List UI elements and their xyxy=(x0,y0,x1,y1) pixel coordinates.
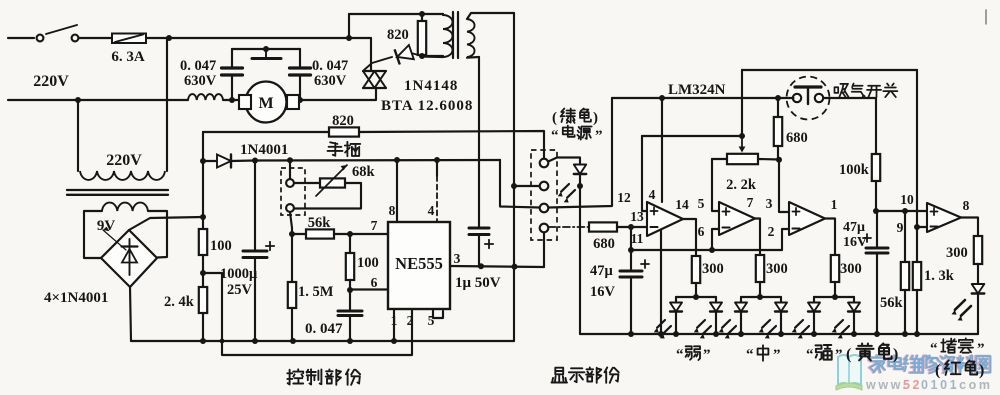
node pin4 rail xyxy=(434,157,440,163)
svg-text:4: 4 xyxy=(649,187,656,202)
svg-text:4: 4 xyxy=(428,203,435,218)
svg-text:47μ: 47μ xyxy=(843,220,865,235)
wire pin11 ground xyxy=(660,230,662,334)
wire Vcc to pin3 xyxy=(500,160,540,208)
wire switch lower down xyxy=(290,212,292,234)
LED blocked red xyxy=(972,284,985,294)
label suction switch xyxy=(835,84,849,97)
svg-text:6: 6 xyxy=(698,224,705,239)
switch S1 lever xyxy=(46,25,77,34)
op-amp U1b plus xyxy=(722,211,729,213)
svg-text:1. 3k: 1. 3k xyxy=(924,268,955,284)
plus sign 47u display xyxy=(641,263,649,265)
svg-text:0. 047: 0. 047 xyxy=(180,58,216,74)
connector pin 1 xyxy=(540,159,549,168)
label display section xyxy=(552,368,568,383)
wire cap top bus xyxy=(232,48,300,50)
svg-text:11: 11 xyxy=(631,231,644,246)
LED mid right arrows xyxy=(762,320,770,328)
node right cap bottom xyxy=(297,97,303,103)
connector pin 4 xyxy=(540,224,549,233)
LED mid right xyxy=(780,297,782,303)
LED strong right arrows xyxy=(835,320,843,328)
svg-text:680: 680 xyxy=(786,130,808,146)
resistor 300 c xyxy=(831,255,839,282)
bridge pointer arrow xyxy=(103,230,126,250)
node bridge plus junction xyxy=(200,214,206,220)
svg-text:680: 680 xyxy=(593,236,615,252)
svg-text:6: 6 xyxy=(371,275,378,290)
resistor 100k xyxy=(872,154,880,181)
pulse transformer T2 core xyxy=(452,12,454,58)
svg-text:56k: 56k xyxy=(308,215,332,231)
IC U2 NE555 box xyxy=(388,222,450,309)
node divider mid xyxy=(200,270,206,276)
node gnd 47u right xyxy=(874,331,880,337)
op-amp U1d triangle xyxy=(927,203,961,232)
svg-text:): ) xyxy=(893,346,898,363)
motor brush left xyxy=(239,95,251,109)
wire 820h left xyxy=(203,131,329,133)
svg-text:1: 1 xyxy=(391,313,398,328)
op-amp U1a minus xyxy=(650,226,657,228)
node input bus left xyxy=(628,247,634,253)
node pin4 power tap xyxy=(659,95,665,101)
junction dot transformer tap xyxy=(166,35,172,41)
wire op4 output xyxy=(961,218,978,237)
svg-text:2. 4k: 2. 4k xyxy=(164,294,195,310)
switch contact upper xyxy=(286,179,294,187)
op-amp U1a plus xyxy=(650,210,657,212)
wire control ground bus xyxy=(131,340,514,342)
svg-text:16V: 16V xyxy=(590,284,616,300)
wire pulse rail top xyxy=(349,13,443,15)
transformer T1 core xyxy=(67,189,168,191)
svg-text:“: “ xyxy=(551,128,559,144)
wire led pair1 branch xyxy=(676,296,716,298)
LED blocked arrows xyxy=(955,300,965,310)
svg-text:4×1N4001: 4×1N4001 xyxy=(44,290,108,306)
node LED to pin2 net xyxy=(577,183,583,189)
LED mid left xyxy=(740,297,742,303)
svg-text:(: ( xyxy=(552,110,557,126)
svg-text:2: 2 xyxy=(768,224,775,239)
wire hot riser to pulse rail xyxy=(348,14,350,38)
node gnd led1b xyxy=(713,331,719,337)
wire led pair2 branch xyxy=(741,296,781,298)
wire wiper rail y136 xyxy=(642,135,742,137)
svg-text:NE555: NE555 xyxy=(395,254,443,273)
wire 2.2k left to pin5 xyxy=(712,158,727,160)
node 0.047 bottom xyxy=(347,338,353,344)
node op2 inverting tap xyxy=(709,247,715,253)
svg-text:10: 10 xyxy=(900,192,914,207)
node pin1 bottom xyxy=(391,338,397,344)
wire 680 node down xyxy=(630,227,632,250)
svg-text:630V: 630V xyxy=(314,73,347,89)
wire pin5 stub xyxy=(433,309,443,318)
wire Vcc rail xyxy=(255,159,500,162)
svg-text:100k: 100k xyxy=(839,162,870,178)
node pin6 junction xyxy=(347,287,353,293)
node pin8 rail xyxy=(394,157,400,163)
svg-text:9V: 9V xyxy=(97,218,116,234)
resistor 56k right xyxy=(904,211,906,262)
wire AC neutral xyxy=(8,99,188,101)
switch S1 contact circles xyxy=(37,35,44,42)
wire pin8 xyxy=(396,160,398,222)
op-amp U1c minus xyxy=(792,228,799,230)
connector pin 2 xyxy=(540,182,549,191)
resistor 1.5M xyxy=(291,234,293,282)
node gnd led2b xyxy=(778,331,784,337)
wire rail to switch xyxy=(289,160,291,179)
svg-text:8: 8 xyxy=(963,198,970,213)
svg-text:6. 3A: 6. 3A xyxy=(111,49,145,65)
svg-text:BTA 12.6008: BTA 12.6008 xyxy=(381,98,473,114)
wire plus node up xyxy=(202,132,204,161)
wire 68k return loop xyxy=(295,183,362,209)
svg-text:1. 5M: 1. 5M xyxy=(298,284,334,300)
node left cap bottom xyxy=(229,97,235,103)
op-amp U1d minus xyxy=(930,226,937,228)
op-amp U1b triangle xyxy=(719,202,755,235)
svg-text:”: ” xyxy=(773,347,781,363)
resistor 820 trigger xyxy=(421,14,423,21)
corner mark xyxy=(985,10,987,24)
wire pin9 stub xyxy=(917,226,927,228)
svg-text:100: 100 xyxy=(357,255,379,271)
svg-text:1: 1 xyxy=(831,197,838,212)
wire input bus xyxy=(631,249,782,251)
LED weak right arrows xyxy=(697,320,705,328)
node led pair3 top xyxy=(832,294,838,300)
op-amp U1d plus xyxy=(930,211,937,213)
svg-text:1000μ: 1000μ xyxy=(220,266,258,282)
wire op3 output xyxy=(825,219,835,256)
wire pin1 xyxy=(393,309,395,341)
potentiometer 2.2k wiper xyxy=(741,136,743,147)
svg-text:220V: 220V xyxy=(33,73,69,90)
plus sign 1000u xyxy=(266,245,274,247)
svg-text:5: 5 xyxy=(428,313,435,328)
wire triac to motor xyxy=(299,88,376,100)
node gnd 56k xyxy=(902,331,908,337)
suction switch dashed circle xyxy=(787,77,830,120)
junction dot neutral to transformer xyxy=(75,97,81,103)
svg-text:): ) xyxy=(979,362,984,379)
wire rail y70 down to pin9 xyxy=(916,70,918,227)
wire pin5 from pot xyxy=(712,159,719,211)
svg-text:52: 52 xyxy=(903,378,922,392)
node pin9 junction xyxy=(914,224,920,230)
capacitor 1000u 25V xyxy=(254,161,256,252)
bridge rectifier 4x1N4001 diamond xyxy=(101,230,157,287)
svg-text:2: 2 xyxy=(407,313,414,328)
svg-text:13: 13 xyxy=(630,209,644,224)
node gnd led3a xyxy=(811,331,817,337)
resistor 56k xyxy=(292,233,306,235)
wire pin4 power xyxy=(661,98,663,202)
node 1000u bottom xyxy=(252,338,258,344)
wire op4 plus node xyxy=(876,210,927,212)
node cap bus center xyxy=(263,46,269,52)
node 56k top xyxy=(902,208,908,214)
svg-text:100: 100 xyxy=(210,238,232,254)
wire display ground bus xyxy=(580,333,978,335)
svg-text:7: 7 xyxy=(371,218,378,233)
node 56k left xyxy=(289,231,295,237)
triac BTA12.6008 xyxy=(363,70,386,72)
wire pin4 riser xyxy=(543,232,545,267)
node gnd led3b xyxy=(851,331,857,337)
svg-text:”: ” xyxy=(835,347,843,363)
node 820v bottom xyxy=(419,53,425,59)
resistor 680 sense xyxy=(589,222,617,231)
capacitor 47u 16V display xyxy=(630,250,632,271)
diode D2 1N4148 diagonal xyxy=(411,53,422,56)
node gnd pin11 xyxy=(658,331,664,337)
pulse transformer T2 left winding xyxy=(443,15,453,57)
LED weak right xyxy=(715,297,717,303)
wire bridge plus output xyxy=(129,217,203,230)
transformer T1 secondary 9V xyxy=(102,203,148,211)
svg-text:7: 7 xyxy=(747,195,754,210)
node transformer return junction xyxy=(512,264,518,270)
node wiper junction xyxy=(739,133,745,139)
motor brush right xyxy=(287,95,299,109)
resistor 300 b xyxy=(756,255,764,282)
wire pin1 to LED xyxy=(548,158,580,165)
node gnd 47u disp xyxy=(628,331,634,337)
wire pin3 right to display rail xyxy=(548,98,612,208)
suction switch contacts xyxy=(793,94,801,102)
svg-text:(: ( xyxy=(935,362,940,379)
svg-text:3: 3 xyxy=(766,196,773,211)
op-amp U1b minus xyxy=(722,227,729,229)
plus sign 47u right xyxy=(863,237,871,239)
svg-text:”: ” xyxy=(977,341,985,357)
node crossing blob xyxy=(220,339,225,344)
svg-text:630V: 630V xyxy=(184,73,217,89)
pulse transformer T2 right winding xyxy=(467,19,475,57)
wire plus node down xyxy=(202,217,204,229)
capacitor 0.047 timing xyxy=(349,290,351,311)
wire switch right rail xyxy=(823,98,876,154)
svg-text:820: 820 xyxy=(332,113,354,129)
resistor 100 (timing) xyxy=(349,234,351,253)
bridge inner diode symbol xyxy=(129,239,131,275)
wire switch to fuse xyxy=(79,37,112,39)
wire switch to 68k xyxy=(294,182,320,184)
svg-text:820: 820 xyxy=(387,27,409,43)
dashed box handle switch xyxy=(281,168,305,215)
node circle2 tap xyxy=(511,183,517,189)
potentiometer 68k body xyxy=(320,178,345,187)
wire led pair3 branch xyxy=(814,296,854,298)
wire pin6 xyxy=(350,288,388,290)
node 100 top xyxy=(347,231,353,237)
connector J1 dashed box xyxy=(531,150,557,240)
svg-text:9: 9 xyxy=(897,220,904,235)
switch contact lower xyxy=(286,204,294,212)
LED mid left arrows xyxy=(722,320,730,328)
LED strong right xyxy=(853,297,855,303)
node 820v top xyxy=(419,11,425,17)
svg-text:2. 2k: 2. 2k xyxy=(726,177,757,193)
capacitor 0.047 630V left xyxy=(231,49,233,68)
svg-text:“: “ xyxy=(930,341,938,357)
node op1 inverting xyxy=(628,224,634,230)
svg-text:12: 12 xyxy=(617,190,631,205)
LED strong left arrows xyxy=(795,320,803,328)
op-amp U1c triangle xyxy=(789,202,825,235)
svg-text:25V: 25V xyxy=(227,282,253,298)
svg-text:16V: 16V xyxy=(843,235,867,250)
wire pin6 from bus xyxy=(712,229,719,250)
wire bridge out up xyxy=(202,161,204,217)
chassis symbol xyxy=(265,49,267,58)
potentiometer 2.2k body xyxy=(727,154,758,164)
op-amp U1a triangle xyxy=(647,202,683,236)
wire 820 bottom to winding xyxy=(422,55,443,57)
wire pin4 signal dashdot xyxy=(548,226,589,228)
LED green arrows xyxy=(561,184,569,192)
svg-text:8: 8 xyxy=(389,203,396,218)
svg-text:300: 300 xyxy=(766,261,788,277)
LED green power xyxy=(574,165,586,175)
resistor 300 a xyxy=(692,256,700,283)
wire divider to pin2 route xyxy=(203,273,412,355)
wire transformer secondary bottom drop xyxy=(478,57,480,228)
node 1.5M bottom xyxy=(290,338,296,344)
resistor 820 handle xyxy=(329,127,359,136)
plus sign 1u xyxy=(485,243,493,245)
label control section xyxy=(287,369,303,384)
svg-text:M: M xyxy=(258,95,273,112)
node 1000u top xyxy=(252,158,258,164)
wire winding bottom left xyxy=(422,55,443,58)
svg-text:): ) xyxy=(593,110,598,126)
node gnd led1a xyxy=(673,331,679,337)
wire fuse to node xyxy=(146,37,349,39)
svg-text:1N4148: 1N4148 xyxy=(404,78,458,94)
node diode anode xyxy=(200,158,206,164)
node 68k branch xyxy=(287,157,293,163)
diode D1 1N4001 xyxy=(203,160,217,162)
connector pin 3 xyxy=(540,204,549,213)
wire pin3+ from 680 node xyxy=(779,160,789,212)
node hot branch xyxy=(346,35,352,41)
svg-text:14: 14 xyxy=(675,197,689,212)
svg-text:56k: 56k xyxy=(880,295,904,311)
LED weak left arrows xyxy=(657,320,665,328)
label shoubing (handle) xyxy=(328,142,343,155)
node 1u cap junction xyxy=(478,263,484,269)
resistor 680 pullup xyxy=(777,98,779,117)
svg-text:220V: 220V xyxy=(106,152,142,169)
wire pin12 from divider rail xyxy=(642,136,647,211)
wire pin3 output xyxy=(450,266,544,267)
svg-text:300: 300 xyxy=(946,245,968,261)
LED strong left xyxy=(813,297,815,303)
wire bus to op3 inverting xyxy=(782,229,789,250)
svg-text:”: ” xyxy=(595,128,603,144)
wire 2.2k right xyxy=(758,158,779,161)
resistor 2.4k xyxy=(202,273,204,287)
wire op1 output xyxy=(683,219,696,256)
node gnd led2a xyxy=(738,331,744,337)
resistor 300 d xyxy=(974,236,982,264)
resistor 100 (divider) xyxy=(199,229,207,255)
op-amp U1c plus xyxy=(792,211,799,213)
wire 820h to connector xyxy=(359,131,544,159)
capacitor 0.047 630V right xyxy=(299,49,301,68)
svg-text:300: 300 xyxy=(840,261,862,277)
svg-text:”: ” xyxy=(703,347,711,363)
resistor 1.3k xyxy=(916,227,918,262)
svg-text:1μ 50V: 1μ 50V xyxy=(455,275,501,291)
wire pin2 left xyxy=(514,185,540,187)
wire wiper riser to y70 rail xyxy=(741,70,743,136)
svg-text:(: ( xyxy=(846,346,851,363)
watermark site name xyxy=(869,355,885,372)
node gnd 1.3k xyxy=(914,331,920,337)
node led pair2 top xyxy=(757,294,763,300)
wire rail y70 xyxy=(742,69,917,71)
suction switch bar xyxy=(795,85,821,88)
wire op2 output xyxy=(755,219,760,256)
svg-text:5: 5 xyxy=(698,196,705,211)
svg-text:1N4001: 1N4001 xyxy=(240,142,288,158)
wire AC line L top-left xyxy=(8,37,34,39)
potentiometer 68k wiper arrow xyxy=(316,165,347,196)
transformer T1 primary 220V xyxy=(77,100,79,171)
svg-text:.com: .com xyxy=(953,378,993,392)
wire transformer secondary top drop xyxy=(513,13,515,341)
motor M circle xyxy=(246,82,287,123)
svg-text:68k: 68k xyxy=(352,164,376,180)
svg-text:300: 300 xyxy=(702,261,724,277)
svg-text:“: “ xyxy=(746,347,754,363)
node 2.4k bottom xyxy=(200,338,206,344)
wire display Vcc rail xyxy=(612,97,794,99)
node 2.2k right 680 bottom xyxy=(776,157,782,163)
node 680 pullup tap xyxy=(775,95,781,101)
wire hot to motor branch xyxy=(349,38,371,71)
svg-text:LM324N: LM324N xyxy=(668,82,726,98)
fuse F1 6.3A body xyxy=(112,34,146,44)
node 100k bottom xyxy=(873,208,879,214)
capacitor 47u 16V right xyxy=(876,211,878,248)
svg-text:0. 047: 0. 047 xyxy=(312,58,348,74)
svg-text:“: “ xyxy=(676,347,684,363)
svg-text:0. 047: 0. 047 xyxy=(305,321,343,337)
svg-text:“: “ xyxy=(806,347,814,363)
node led pair1 top xyxy=(693,294,699,300)
svg-text:3: 3 xyxy=(454,251,461,266)
LED weak left xyxy=(675,297,677,303)
wire pin4 xyxy=(436,160,438,176)
svg-text:47μ: 47μ xyxy=(590,263,614,279)
wire bridge minus to ground bus xyxy=(130,287,131,341)
capacitor 1u 50V xyxy=(469,227,489,230)
watermark logo book xyxy=(838,355,861,385)
